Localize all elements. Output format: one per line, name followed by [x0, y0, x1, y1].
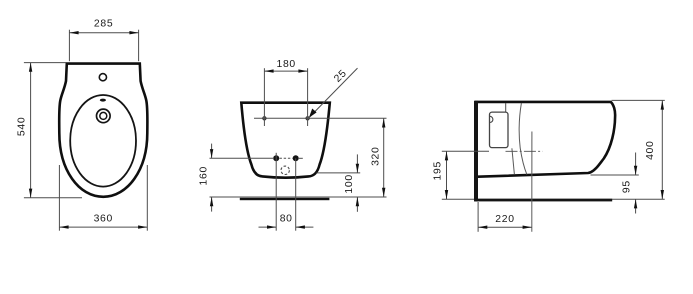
bolt dot left [273, 155, 279, 161]
dim 180 ext lines [263, 68, 265, 126]
svg-text:80: 80 [280, 213, 293, 224]
svg-text:220: 220 [495, 214, 514, 225]
bowl front curve [519, 103, 527, 175]
floor line [442, 198, 665, 200]
body bottom level line [317, 172, 361, 174]
dim 180 line [264, 70, 307, 72]
dim 80 line [259, 226, 277, 228]
svg-text:195: 195 [433, 161, 444, 180]
svg-text:285: 285 [94, 18, 113, 29]
dim 95 ext line [591, 174, 639, 176]
dim 360 line [59, 226, 147, 228]
dim 80 ext lines [275, 153, 277, 231]
overflow slot [100, 99, 106, 102]
drain ring inner [100, 112, 107, 119]
svg-text:95: 95 [621, 180, 632, 193]
side profile [475, 102, 616, 177]
dim 400 ext line [612, 99, 665, 101]
floor slab bar [475, 199, 613, 202]
dim 220 line [478, 226, 532, 228]
left fixing hole [263, 117, 266, 120]
drain center line [506, 150, 543, 152]
dim 285 line [69, 32, 138, 34]
drain ring outer [97, 109, 111, 123]
dim 95 line [635, 153, 637, 176]
inner slant line [512, 148, 515, 174]
dim 220 ext line left [477, 202, 479, 232]
svg-text:400: 400 [645, 140, 656, 159]
svg-text:540: 540 [16, 117, 27, 136]
hole level line [254, 117, 387, 119]
dim 160 line [211, 144, 213, 159]
svg-text:180: 180 [276, 59, 295, 70]
bolt dot right [293, 155, 299, 161]
dim 400 line [661, 100, 663, 199]
floor line [210, 196, 387, 198]
wall bar [474, 101, 478, 202]
dim 540 line [30, 63, 32, 198]
faucet hole [99, 74, 106, 81]
bolt level line [210, 157, 275, 159]
dim 320 line [383, 118, 385, 197]
bowl inner rim [70, 95, 136, 187]
svg-text:100: 100 [344, 174, 355, 193]
bidet plan outline [59, 64, 147, 197]
fixing box [490, 112, 509, 148]
dim 360 ext lines [58, 165, 60, 231]
inner vline [505, 103, 507, 112]
wall bar [240, 198, 330, 200]
right fixing hole [306, 117, 309, 120]
bidet front outline [241, 103, 329, 178]
svg-text:25: 25 [332, 68, 349, 85]
svg-text:160: 160 [199, 166, 210, 185]
leader 25 [310, 68, 358, 117]
box notch [490, 116, 493, 122]
dim 195 line [446, 151, 448, 199]
drain dashed circle [281, 166, 289, 174]
dim 100 line [356, 154, 358, 173]
dim 540 ext lines [24, 62, 66, 64]
dim 195 ext line [442, 150, 489, 152]
svg-text:360: 360 [94, 214, 113, 225]
trap line / 220 ext right [531, 132, 533, 232]
dim 285 ext lines [68, 30, 70, 62]
svg-text:320: 320 [371, 146, 382, 165]
